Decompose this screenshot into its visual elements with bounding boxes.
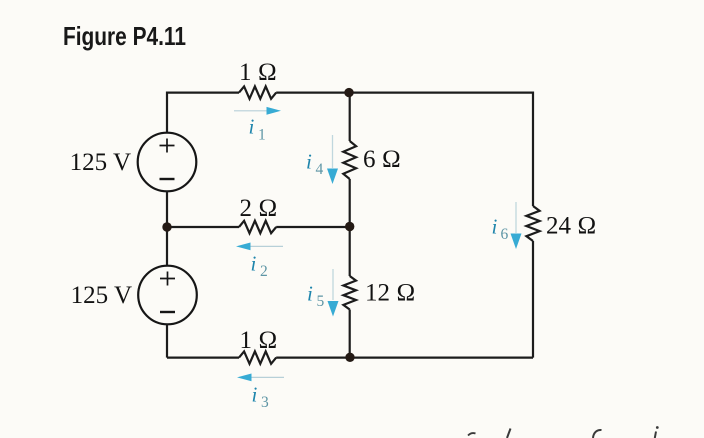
wire center branch upper	[349, 93, 351, 141]
current arrow i2 shaft	[250, 245, 283, 247]
svg-text:6: 6	[501, 226, 509, 243]
wire right rail upper	[532, 92, 534, 207]
svg-text:i: i	[252, 383, 258, 407]
wire left rail top segment	[166, 92, 168, 134]
wire right rail lower	[532, 241, 534, 358]
current arrow i1 head	[267, 107, 282, 115]
svg-text:6 Ω: 6 Ω	[363, 146, 401, 173]
wire left rail middle segment	[166, 191, 168, 266]
voltage source V1 125V (top)	[138, 133, 197, 192]
cut-off text fragment 3 (bottom edge)	[593, 430, 602, 438]
resistor R3 1ohm (bottom)	[239, 351, 276, 363]
wire left rail bottom segment	[166, 324, 168, 357]
plus sign V2	[160, 272, 175, 286]
svg-text:i: i	[307, 282, 313, 306]
svg-text:5: 5	[317, 293, 325, 310]
cut-off text fragment 2 (bottom edge)	[507, 429, 511, 438]
current arrow i3 shaft	[251, 376, 284, 378]
svg-text:i: i	[492, 215, 498, 239]
current arrow i4 head	[327, 169, 338, 185]
wire top (R1 to top-right corner)	[276, 91, 533, 93]
wire middle (left rail to R2)	[167, 226, 239, 228]
current arrow i4 shaft	[332, 135, 334, 168]
svg-text:i: i	[306, 150, 312, 174]
wire center branch middle	[349, 179, 351, 276]
svg-text:125 V: 125 V	[71, 282, 132, 309]
plus sign V1	[160, 139, 175, 153]
svg-text:1: 1	[258, 127, 266, 144]
node b (middle left junction)	[162, 222, 171, 231]
resistor R5 12ohm (center lower)	[343, 276, 356, 310]
current arrow i5 head	[328, 301, 339, 317]
svg-text:Figure P4.11: Figure P4.11	[63, 21, 186, 51]
svg-text:2 Ω: 2 Ω	[240, 195, 278, 222]
cut-off text fragment 1 (bottom edge)	[468, 433, 476, 435]
resistor R1 1ohm (top)	[239, 86, 276, 98]
current arrow i5 shaft	[332, 269, 334, 300]
minus sign V1	[160, 178, 175, 180]
wire middle (R2 to center branch)	[276, 226, 350, 228]
resistor R2 2ohm (middle)	[239, 221, 276, 233]
svg-text:1 Ω: 1 Ω	[239, 59, 277, 86]
resistor R4 6ohm (center upper)	[343, 141, 356, 179]
wire bottom (R3 to left rail)	[167, 357, 239, 359]
current arrow i3 head	[237, 374, 252, 382]
voltage source V2 125V (bottom)	[138, 266, 197, 325]
cut-off text fragment 4 (bottom edge)	[655, 432, 656, 438]
current arrow i2 head	[236, 243, 251, 251]
wire top (left rail to R1)	[167, 91, 239, 93]
current arrow i1 shaft	[234, 110, 268, 112]
svg-text:24 Ω: 24 Ω	[546, 213, 596, 240]
svg-text:1 Ω: 1 Ω	[240, 327, 278, 354]
svg-text:125 V: 125 V	[70, 149, 131, 176]
svg-text:4: 4	[316, 161, 324, 178]
svg-text:3: 3	[261, 394, 269, 411]
svg-text:12 Ω: 12 Ω	[365, 280, 415, 307]
resistor R6 24ohm (right)	[526, 206, 539, 241]
svg-text:i: i	[251, 252, 257, 276]
svg-text:2: 2	[260, 263, 268, 280]
node d (bottom center junction)	[345, 353, 354, 362]
current arrow i6 shaft	[515, 202, 517, 233]
minus sign V2	[160, 311, 175, 313]
wire bottom (right corner to R3)	[276, 357, 533, 359]
wire center branch lower	[349, 310, 351, 358]
node c (middle center junction)	[345, 222, 354, 231]
current arrow i6 head	[511, 234, 522, 250]
node a (top center junction)	[344, 88, 353, 97]
svg-text:i: i	[249, 115, 255, 139]
